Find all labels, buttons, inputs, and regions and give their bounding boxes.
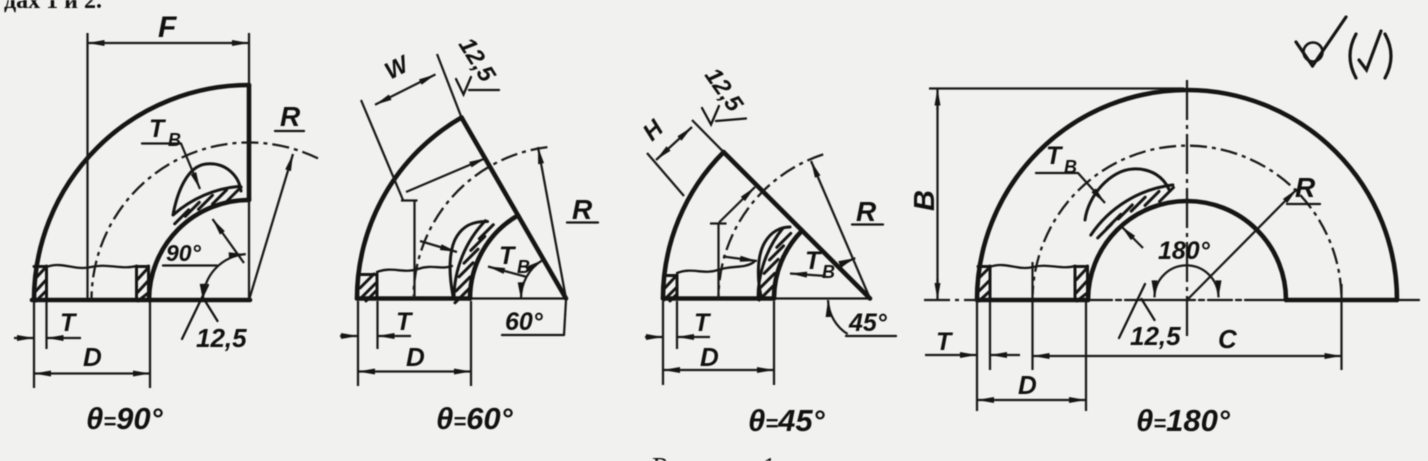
fig2 roughness check mark <box>456 77 471 95</box>
fig1 wall band hatch <box>175 187 241 224</box>
svg-text:θ=60°: θ=60° <box>436 401 514 436</box>
parenthesis left <box>1350 34 1356 78</box>
fig2 dim W line with arrows <box>375 74 436 104</box>
fig4 dim D right arrow <box>1030 399 1086 401</box>
fig3 section dome arc <box>758 227 790 296</box>
fig3 dim T left arrow <box>645 336 663 338</box>
fig2 face extension line <box>437 54 462 118</box>
fig2 outer wall inner edge <box>376 274 379 297</box>
fig3 H extension line <box>647 153 684 196</box>
fig4 section dome arc <box>1085 169 1169 220</box>
fig4 dim D left arrow <box>977 399 1030 401</box>
fig4 label R underline <box>1287 203 1320 205</box>
fig2 dim D left arrow <box>358 370 412 372</box>
fig1 section dome half-circle <box>173 164 241 215</box>
fig3 roughness check mark <box>702 106 719 125</box>
fig2 centerline top tick <box>401 199 418 201</box>
svg-text:θ=45°: θ=45° <box>748 403 826 438</box>
fig2 section dome arc <box>450 221 487 296</box>
fig1 centerline arc <box>91 142 318 300</box>
svg-text:R: R <box>572 194 593 225</box>
fig1 inner wall top edge <box>137 265 149 268</box>
fig3 inner bore arc <box>774 231 802 299</box>
fig3 break wavy line <box>677 262 754 273</box>
fig1 dim T left arrow <box>14 337 34 339</box>
fig3 baseline extension to vertex <box>774 297 870 299</box>
fig1 inner bore arc <box>149 200 249 300</box>
fig1 inner wall right edge <box>147 266 150 299</box>
fig3 left opening centerline <box>717 224 719 300</box>
svg-text:F: F <box>158 11 177 44</box>
fig4 dim B line <box>936 105 938 284</box>
fig4 break wavy line <box>990 265 1075 268</box>
fig3 radius R line with arrow <box>811 161 870 299</box>
fig1 T_B shelf <box>142 142 181 144</box>
fig2 baseline extension to vertex <box>470 297 566 299</box>
fig4 D left extension lower <box>976 370 978 411</box>
fig4 T_B leader arrow <box>1078 173 1105 203</box>
fig3 wall band outer edge <box>758 228 783 299</box>
fig3 roughness shelf <box>716 119 746 122</box>
fig1 dim F right arrow <box>231 42 249 44</box>
svg-text:60°: 60° <box>505 308 544 336</box>
fig1 dim F left arrow <box>88 42 106 44</box>
fig4 outer wall hatch <box>978 267 990 301</box>
fig4 inner wall hatch <box>1076 268 1087 301</box>
fig4 horizontal centerline left <box>924 299 977 301</box>
fig4 outer wall top edge <box>978 265 990 268</box>
svg-text:B: B <box>168 130 181 150</box>
fig4 wall band outer edge <box>1091 185 1173 235</box>
fig4 left opening centerline <box>1031 262 1033 300</box>
fig2 dim D right arrow <box>412 370 471 372</box>
svg-text:θ=180°: θ=180° <box>1136 403 1231 438</box>
fig4 dim C left arrow <box>1033 355 1181 357</box>
svg-text:R: R <box>856 196 877 227</box>
fig4 left end face <box>977 298 1088 303</box>
fig2 D right extension <box>470 301 472 386</box>
fig1 roughness mark long stroke <box>182 285 208 339</box>
fig2 label R underline <box>567 221 598 223</box>
fig2 outer wall hatch <box>360 274 377 301</box>
parenthesis right <box>1385 34 1391 78</box>
fig1 outer wall inner edge <box>45 266 48 299</box>
svg-text:B: B <box>909 190 941 211</box>
svg-text:45°: 45° <box>848 309 888 337</box>
fig2 W extension line <box>361 100 403 200</box>
fig4 T/D left extension <box>976 302 978 370</box>
fig1 T_B opposite arrow <box>213 219 245 263</box>
fig3 T_B arrow from right <box>790 274 826 277</box>
fig3 D right extension <box>773 301 775 385</box>
fig2 angle text underline <box>502 334 564 336</box>
fig4 dim C right arrow <box>1180 355 1342 357</box>
fig3 T right extension <box>676 301 678 349</box>
fig4 outer arc <box>977 90 1397 300</box>
fig4 T_B opposite arrow <box>1121 226 1143 248</box>
fig3 outer wall top edge <box>664 274 677 277</box>
fig3 T/D left extension <box>662 301 664 349</box>
fig2 T/D left extension <box>357 301 359 349</box>
fig1 outer wall hatch <box>35 267 46 301</box>
fig2 wall band hatch <box>455 225 493 303</box>
fig2 wall band outer edge <box>454 221 485 299</box>
fig3 baseline left face <box>663 296 774 301</box>
fig4 radius R line with arrow <box>1187 189 1297 300</box>
fig3 angle arc leader with arrow <box>828 300 848 334</box>
fig3 outer wall hatch <box>664 275 677 301</box>
fig4 dim B bottom arrow <box>936 279 938 300</box>
svg-text:C: C <box>1218 324 1238 354</box>
svg-text:12,5: 12,5 <box>1130 321 1181 351</box>
fig1 outer wall top edge <box>34 265 47 268</box>
fig2 dim T right arrow <box>378 335 412 337</box>
fig2 T right extension <box>376 301 378 349</box>
fig2 leader to vertex <box>564 300 566 335</box>
fig2 T_B arrow from left <box>420 241 457 252</box>
svg-text:R: R <box>1295 172 1316 203</box>
svg-text:Рисунок 1: Рисунок 1 <box>652 452 777 461</box>
fig1 left opening centerline and F extension <box>86 33 88 299</box>
fig1 radius R line with arrow <box>249 154 293 300</box>
fig4 angle arc semicircle with arrows <box>1155 265 1219 297</box>
fig3 right end face line <box>724 152 870 298</box>
svg-text:R: R <box>280 101 301 132</box>
fig4 D right extension <box>1085 302 1087 411</box>
roughness symbol long leg <box>1313 17 1347 66</box>
fig1 dim D right arrow <box>92 372 150 374</box>
fig1 baseline left face <box>32 298 250 303</box>
fig3 upper angle arc with arrow <box>840 258 856 268</box>
fig3 D left extension lower <box>662 349 664 385</box>
fig1 dim F line <box>100 42 236 44</box>
fig2 D left extension lower <box>357 349 359 386</box>
fig3 label R underline <box>852 223 883 225</box>
fig4 roughness mark long stroke <box>1119 284 1145 338</box>
svg-text:дах 1 и 2.: дах 1 и 2. <box>4 0 102 14</box>
fig2 roughness shelf <box>469 89 499 91</box>
fig2 baseline left face <box>357 296 470 301</box>
fig3 outer arc <box>663 152 724 298</box>
fig3 dim H line with arrows <box>656 127 692 160</box>
svg-text:180°: 180° <box>1158 237 1211 265</box>
fig4 inner wall right edge <box>1086 266 1089 299</box>
fig1 T_B leader arrow <box>181 144 200 190</box>
fig4 roughness mark short stroke <box>1142 299 1155 320</box>
fig4 outer wall inner edge <box>989 266 992 299</box>
fig2 left opening centerline <box>413 201 415 300</box>
svg-text:D: D <box>406 342 425 372</box>
fig4 inner wall top edge <box>1075 265 1088 268</box>
svg-text:12,5: 12,5 <box>196 323 247 353</box>
fig1 D left extension lower part <box>33 349 35 388</box>
fig4 dim T left arrow <box>925 354 977 356</box>
fig2 outer arc <box>357 118 462 299</box>
fig4 vertical centerline <box>1186 80 1188 341</box>
fig3 outer wall inner edge <box>676 275 679 297</box>
fig1 outer arc <box>34 85 249 300</box>
fig4 wall band hatch <box>1098 188 1174 238</box>
fig4 B top extension line <box>929 87 1184 89</box>
fig1 break wavy line <box>47 265 137 268</box>
fig4 horizontal centerline middle <box>1088 299 1286 301</box>
svg-text:D: D <box>1018 370 1037 400</box>
fig4 C right extension <box>1340 284 1342 370</box>
fig2 dim T left arrow <box>340 335 358 337</box>
fig4 centerline arc <box>1033 146 1342 295</box>
fig2 inner bore arc <box>470 215 518 298</box>
fig1 angle arc with arrows <box>203 254 246 301</box>
fig1 inner wall left edge <box>135 266 138 299</box>
fig4 C left extension <box>1031 302 1033 370</box>
fig3 face extension line <box>692 120 724 152</box>
fig1 angle text underline shelf <box>163 264 217 266</box>
fig4 T_B shelf <box>1036 172 1078 174</box>
fig2 angle arc with arrows <box>521 260 542 299</box>
fig2 radius R line with arrow <box>538 147 566 299</box>
fig3 centerline arc <box>719 154 824 296</box>
fig3 dim D right arrow <box>712 369 774 371</box>
fig1 D right extension <box>149 302 151 388</box>
svg-text:D: D <box>700 342 719 372</box>
roughness symbol left leg <box>1296 42 1313 66</box>
fig3 dim D left arrow <box>663 369 712 371</box>
fig3 centerline top tick <box>710 222 727 224</box>
fig1 dim T right arrow <box>47 337 82 339</box>
fig2 centerline arc <box>414 147 548 296</box>
fig4 inner wall left edge <box>1074 266 1077 299</box>
fig1 F right extension <box>248 33 250 85</box>
fig1 T right extension <box>45 302 47 349</box>
fig2 T_B arrow from right <box>488 267 527 278</box>
fig4 T right extension <box>989 302 991 370</box>
fig1 label R underline <box>275 130 304 132</box>
fig1 right face extension to vertex <box>248 200 250 300</box>
fig4 dim B top arrow <box>936 89 938 111</box>
fig1 dim D left arrow <box>34 372 92 374</box>
svg-text:B: B <box>822 262 835 282</box>
fig3 T_B arrow from left <box>723 257 757 262</box>
fig3 arrow to face line <box>719 187 755 223</box>
roughness symbol circle <box>1304 43 1323 62</box>
fig1 roughness mark short stroke <box>205 300 218 321</box>
fig4 right end face <box>1286 298 1397 303</box>
fig4 dim T right arrow <box>990 354 1020 356</box>
fig2 arrow to face line <box>406 158 486 192</box>
fig3 wall band hatch <box>759 233 791 300</box>
fig3 angle text underline <box>846 335 896 337</box>
fig1 T/D left extension <box>33 302 35 349</box>
fig1 inner wall hatch <box>137 268 148 301</box>
svg-text:D: D <box>83 342 102 372</box>
fig2 right end face line <box>462 118 567 299</box>
fig1 wall band outer edge <box>174 186 240 214</box>
svg-text:θ=90°: θ=90° <box>86 401 164 436</box>
fig4 inner bore arc <box>1088 201 1286 300</box>
fig4 horizontal centerline right <box>1397 299 1419 301</box>
fig2 outer wall top edge <box>359 273 377 276</box>
check mark in parens <box>1359 31 1381 70</box>
svg-text:90°: 90° <box>166 240 202 266</box>
fig1 right end face <box>247 85 252 200</box>
fig2 break wavy line <box>377 266 452 272</box>
fig3 dim T right arrow <box>677 336 710 338</box>
